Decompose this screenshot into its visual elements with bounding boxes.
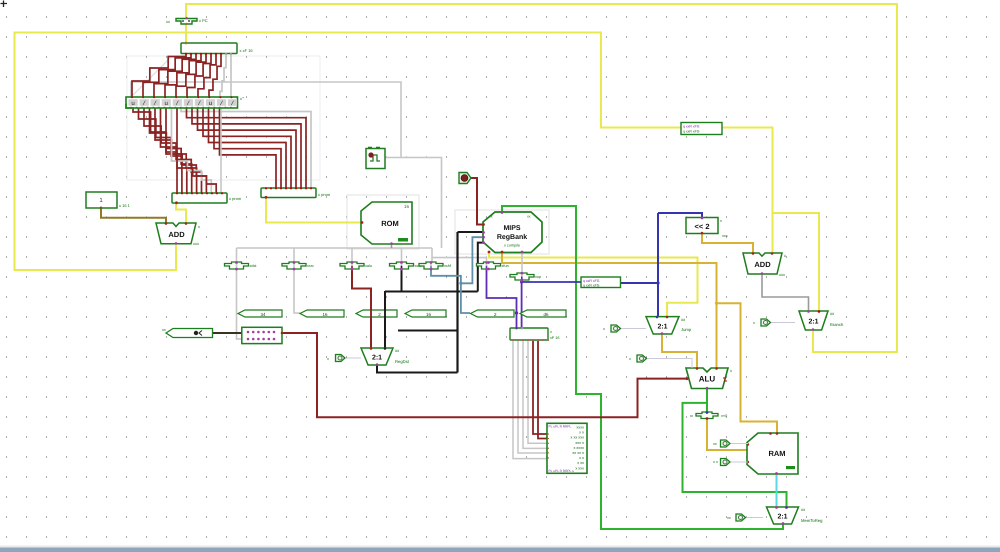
svg-text:ROM: ROM — [381, 219, 399, 228]
wire indigo vertical — [657, 213, 659, 317]
constant for M2 — [753, 319, 795, 326]
splitter lower-right fan wires — [181, 108, 311, 188]
wire through extender x486.5 — [486, 263, 488, 266]
wire indigo to shift2 — [658, 213, 702, 218]
svg-text:xx: xx — [713, 442, 717, 446]
svg-text:Branch: Branch — [830, 322, 844, 327]
svg-text:MIPS: MIPS — [503, 225, 520, 232]
svg-text:x: x — [629, 357, 631, 361]
svg-text:x: x — [784, 253, 786, 258]
svg-text:x xxx: x xxx — [575, 466, 584, 470]
wire black horiz 330 — [398, 330, 458, 332]
svg-text:RegDst: RegDst — [395, 359, 410, 364]
junction ALU B — [715, 302, 718, 305]
wire tunnelL to register — [213, 332, 242, 334]
junction steel — [459, 282, 462, 285]
wire ext5 to tunnel5 steel — [431, 269, 470, 313]
svg-text:x xx xxx: x xx xxx — [570, 436, 584, 440]
svg-text:xxxx: xxxx — [576, 426, 584, 430]
wire ext7 to box3 jump — [522, 281, 581, 283]
wire mux1 out to ALU A — [662, 334, 697, 368]
wire PC top loop — [186, 4, 897, 352]
splitter box3 — [581, 277, 621, 288]
constant RAM str — [713, 459, 748, 466]
svg-text:x: x — [327, 357, 329, 361]
tunnel T3 rt — [356, 310, 397, 317]
bit extender E4 — [390, 261, 423, 270]
svg-text:x x: x x — [713, 460, 718, 464]
adder ADD2 — [743, 252, 786, 277]
wire drop ext4 — [401, 248, 403, 263]
wire drop ext2 — [293, 248, 295, 263]
svg-text:ADD: ADD — [754, 260, 771, 269]
bottom window edge strip — [0, 546, 1000, 548]
memory ROM — [361, 202, 412, 245]
svg-text:d6: d6 — [543, 312, 549, 317]
wire PC reg to splitter box — [185, 24, 187, 43]
svg-text:xx: xx — [166, 19, 170, 24]
svg-text:34: 34 — [260, 312, 266, 317]
svg-text:u: u — [209, 100, 213, 107]
wire ext2 to tunnel2 — [294, 269, 300, 313]
svg-text:x PC: x PC — [199, 18, 208, 23]
svg-text:xx: xx — [727, 516, 731, 520]
svg-text:x xF 16: x xF 16 — [240, 48, 254, 53]
wire ext4 down — [401, 269, 403, 291]
wire splitbox to control 1 — [513, 340, 547, 459]
wire box1 out to ADD2 and mux2 — [722, 128, 773, 254]
shifter SHL2 — [686, 217, 728, 238]
bit extender E3 — [340, 261, 372, 270]
wire through extender x352 — [351, 263, 353, 266]
wire splitbox to control 6 — [538, 340, 547, 439]
svg-text:xdst: xdst — [250, 264, 258, 268]
wire tee to mux2 right input — [773, 213, 820, 311]
tunnel T6 op — [520, 310, 566, 317]
probe row instruction bits — [126, 96, 245, 109]
junction violet tunnel — [515, 311, 518, 314]
wire ext7 to splitbox — [521, 279, 523, 328]
tunnel T1 rd — [238, 310, 282, 317]
svg-text:x×0: x×0 — [721, 414, 727, 418]
wire boxL2 out to ROM addr — [266, 198, 361, 223]
svg-text:x xxxx: x xxxx — [573, 446, 584, 450]
svg-text:x compile: x compile — [504, 244, 520, 248]
wire through extender x431 — [430, 263, 432, 266]
wire boxL1 out to ADD1 — [176, 203, 186, 223]
svg-text:xxx: xxx — [193, 241, 199, 246]
wire instr bus — [237, 247, 433, 249]
wire black to mux0 right — [384, 291, 386, 348]
svg-text:x 16 1: x 16 1 — [119, 203, 131, 208]
svg-text:MemToReg: MemToReg — [801, 518, 823, 523]
wire PC left loop — [15, 33, 682, 271]
clock CLK — [366, 148, 385, 169]
splitter top fan wires — [132, 54, 231, 98]
wire drop ext1 — [236, 248, 238, 263]
svg-text:<< 2: << 2 — [694, 222, 709, 231]
svg-text:x x: x x — [579, 431, 584, 435]
wire black to RegBank WD — [458, 231, 484, 233]
wire drop ext5 — [431, 248, 433, 263]
svg-text:/: / — [197, 100, 201, 107]
wire through extender x236.5 — [236, 263, 238, 266]
splitter box SPB — [510, 327, 560, 341]
svg-text:/: / — [175, 100, 179, 107]
svg-text:x: x — [720, 219, 722, 223]
svg-text:2:1: 2:1 — [657, 323, 667, 330]
comparator COMP — [690, 411, 727, 420]
origin cross marker — [1, 1, 8, 8]
halo around ROM — [347, 195, 419, 249]
wire gray long top — [131, 82, 401, 158]
svg-text:RAM: RAM — [768, 449, 785, 458]
bit extender E1 — [225, 261, 258, 270]
svg-text:PL uPL R RRPL: PL uPL R RRPL — [549, 424, 572, 428]
wire RegBank shamt steel — [461, 237, 483, 283]
wire through extender x294 — [293, 263, 295, 266]
wire register out to ALU left — [282, 333, 686, 417]
splitter box L2 — [261, 187, 331, 199]
wire splitbox to control 2 — [518, 340, 547, 453]
constant for ALU op — [629, 355, 692, 368]
wire black vertical bus — [456, 232, 458, 373]
wire ADD2 out to mux2 left — [762, 274, 809, 311]
wire splitbox to control 3 — [523, 340, 547, 448]
wire clock to bus — [385, 158, 442, 249]
svg-text:2:1: 2:1 — [777, 514, 787, 521]
wire comparator out to RAM — [707, 419, 747, 451]
wire through extender7 — [521, 273, 523, 277]
bit extender E7 — [510, 272, 541, 281]
tunnel TL a — [162, 328, 213, 338]
bit extender E5 — [419, 261, 452, 270]
wire through extender x401.5 — [401, 263, 403, 266]
svg-text:xshf: xshf — [444, 264, 452, 268]
wire gray straight under row — [220, 108, 222, 193]
svg-text:xalu: xalu — [365, 264, 372, 268]
wire RegBank rd2sel black — [478, 243, 483, 292]
wire ext6 to splitbox violet — [487, 269, 517, 328]
svg-text:q xxR xFG: q xxR xFG — [583, 279, 600, 283]
svg-text:RegBank: RegBank — [497, 233, 527, 241]
svg-text:u: u — [164, 100, 168, 107]
svg-text:q xxR xFG: q xxR xFG — [683, 125, 700, 129]
register file MIPS RegBank U_RB — [482, 211, 542, 253]
adder ADD1 — [156, 222, 200, 246]
alu ALU U_ALU — [686, 367, 733, 389]
svg-text:xx: xx — [162, 328, 166, 332]
svg-text:16: 16 — [426, 312, 432, 317]
svg-text:/: / — [231, 100, 235, 107]
svg-text:/: / — [142, 100, 146, 107]
svg-text:x: x — [730, 368, 732, 373]
splitter box PC — [181, 42, 253, 55]
wire drop ext3 — [351, 248, 353, 263]
wire mux0 out — [377, 365, 458, 373]
svg-text:x x: x x — [579, 456, 584, 460]
wire RegBank WD loop — [502, 206, 783, 529]
wire bus to ext6 — [432, 258, 487, 263]
wire splitter leg diagonal — [131, 58, 170, 97]
wire ALU B to RAM data — [717, 303, 778, 433]
button input — [459, 173, 471, 184]
svg-text:xF 16: xF 16 — [550, 336, 560, 340]
svg-text:16: 16 — [404, 204, 410, 209]
svg-text:xsrc: xsrc — [307, 264, 314, 268]
tunnel T4 imm — [405, 310, 446, 317]
wire RegBank to ext7 — [521, 252, 523, 273]
svg-text:x prom: x prom — [318, 192, 331, 197]
svg-text:/: / — [220, 100, 224, 107]
control unit CTRL — [547, 423, 587, 473]
junction indigo — [656, 281, 659, 284]
tunnel T5 func — [471, 310, 515, 317]
constant RAM ld — [713, 440, 748, 447]
svg-text:x prom: x prom — [229, 196, 242, 201]
constant for M3 — [727, 514, 763, 521]
wire overpass darkred tunnel3 — [370, 309, 372, 319]
wire const1 to ADD1 left — [101, 208, 166, 223]
wire shift2 out to ADD2 left — [702, 234, 753, 254]
mux M0 2:1 — [361, 347, 410, 366]
svg-text:/: / — [186, 100, 190, 107]
svg-text:/: / — [153, 100, 157, 107]
svg-text:x: x — [603, 327, 605, 331]
memory RAM U_RAM — [747, 432, 798, 475]
svg-text:q xxR xFG: q xxR xFG — [583, 284, 600, 288]
svg-text:xfun: xfun — [502, 264, 509, 268]
svg-text:q xxR xFG: q xxR xFG — [683, 130, 700, 134]
wire overpass black tunnel3 — [384, 309, 386, 319]
junction ext7 — [520, 280, 523, 283]
halo around MIPS RegBank — [455, 210, 549, 254]
svg-text:xxx x: xxx x — [575, 441, 584, 445]
mux M1 2:1 — [646, 316, 692, 335]
wire black horiz 291 — [385, 291, 478, 293]
register REG file box — [242, 327, 284, 343]
wire ROM data stub — [391, 244, 393, 248]
svg-text:2:1: 2:1 — [372, 355, 382, 362]
svg-text:ADD: ADD — [168, 230, 185, 239]
wire ext1 to tunnel1 and reg — [237, 269, 242, 339]
bit extender E6 — [477, 261, 509, 270]
svg-text:x xx: x xx — [577, 461, 584, 465]
constant 1 box — [86, 192, 131, 209]
svg-text:16: 16 — [322, 312, 328, 317]
wire ALU out to mux3 right — [683, 403, 787, 507]
svg-text:2:1: 2:1 — [808, 319, 818, 326]
splitter box L1 — [172, 192, 242, 204]
svg-text:xxx: xxx — [779, 272, 785, 277]
wire splitbox to control 4 — [528, 340, 547, 443]
constant for M0 — [327, 355, 361, 362]
svg-text:Jump: Jump — [681, 327, 692, 332]
svg-text:u: u — [131, 100, 135, 107]
mux M3 2:1 — [767, 506, 824, 525]
svg-text:ALU: ALU — [699, 375, 716, 384]
wire RAM out to mux3 left — [776, 474, 778, 507]
svg-text:xx: xx — [489, 215, 493, 219]
svg-text:xop: xop — [535, 275, 541, 279]
wire splitbox to control 5 — [533, 340, 547, 434]
tunnel T2 rs — [300, 310, 344, 317]
bit extender E2 — [282, 261, 314, 270]
svg-text:PL uPL R RRPL u: PL uPL R RRPL u — [549, 469, 575, 473]
wire LED to RegBank — [470, 178, 483, 225]
svg-text:x: x — [550, 330, 552, 334]
wire RegBank RD2 bus — [502, 252, 717, 368]
splitter box1 — [681, 123, 722, 135]
halo around splitter fan — [127, 56, 320, 180]
wire RegBank RD1 bus — [489, 252, 698, 317]
splitter lower-left fan wires — [133, 108, 216, 193]
mux M2 2:1 — [799, 310, 844, 331]
svg-text:x: x — [753, 321, 755, 325]
wire ALU out to comparator — [706, 389, 708, 413]
svg-text:x: x — [198, 224, 200, 229]
wire ext3 to mux0 left — [352, 269, 371, 348]
svg-text:xxx: xxx — [722, 234, 728, 238]
svg-text:xx: xx — [527, 215, 531, 219]
constant for M1 — [603, 325, 646, 332]
svg-text:x''': x''' — [240, 96, 245, 101]
extender pin dots overlay — [235, 261, 238, 264]
wire box3 to shift2 and mux1 — [621, 282, 659, 284]
svg-text:xx xx x: xx xx x — [572, 451, 584, 455]
register PC — [166, 17, 208, 25]
